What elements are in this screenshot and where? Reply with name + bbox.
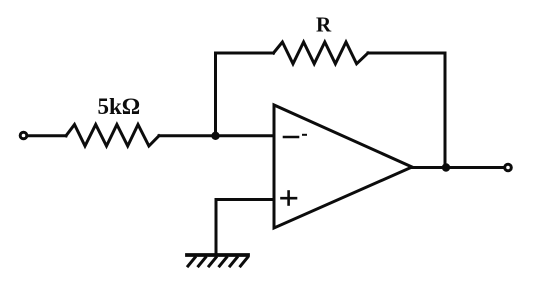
output terminal (open circle) <box>505 164 512 171</box>
svg-text:5kΩ: 5kΩ <box>98 94 141 119</box>
op-amp noninverting input plus sign <box>282 197 297 200</box>
wire top-left horizontal to resistor R <box>216 52 274 55</box>
svg-text:R: R <box>316 13 332 37</box>
resistor R1 5kOhm (zigzag) <box>66 125 159 147</box>
wire down to ground <box>215 200 218 256</box>
wire input terminal to resistor 5k <box>28 134 66 137</box>
ground symbol hatch strokes <box>188 258 195 267</box>
wire op-amp output to output terminal <box>412 166 504 169</box>
wire node A to op-amp inverting input <box>216 134 274 137</box>
op-amp U1 (triangle) <box>274 105 412 228</box>
op-amp inverting input minus sign <box>284 136 298 139</box>
ground symbol bar <box>187 253 248 257</box>
wire node A up to feedback branch (left vertical) <box>214 53 217 136</box>
wire resistor 5k to node A <box>159 134 216 137</box>
scan dash artifact near minus <box>303 134 306 136</box>
node A (junction dot) <box>211 132 219 140</box>
input terminal (open circle) <box>20 132 27 139</box>
wire op-amp noninverting input horizontal <box>216 198 273 201</box>
wire right vertical down to output node <box>444 53 447 168</box>
output node junction dot <box>442 163 450 171</box>
resistor R (feedback zigzag) <box>274 42 369 64</box>
wire resistor R to top-right corner <box>368 52 445 55</box>
